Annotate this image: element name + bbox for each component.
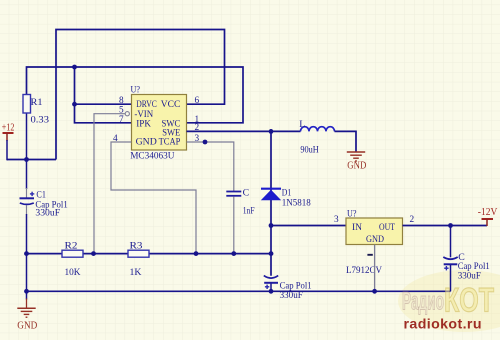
svg-text:7: 7 bbox=[119, 115, 124, 125]
svg-text:2: 2 bbox=[410, 215, 415, 225]
node 1nF junction bbox=[231, 251, 236, 256]
svg-text:10K: 10K bbox=[65, 267, 81, 278]
wire OUT to -12V bbox=[403, 225, 488, 227]
node B (75,103) bbox=[72, 102, 77, 107]
resistor R3 bbox=[128, 241, 149, 279]
svg-text:radiokot.ru: radiokot.ru bbox=[404, 317, 482, 333]
resistor R2 bbox=[62, 241, 83, 279]
svg-text:L7912CV: L7912CV bbox=[346, 265, 382, 276]
node C2 junction bbox=[269, 289, 274, 294]
svg-text:330uF: 330uF bbox=[35, 207, 60, 218]
wire VCC top loop bbox=[56, 30, 225, 160]
wire to ground left bbox=[26, 291, 28, 299]
svg-text:90uH: 90uH bbox=[300, 144, 318, 155]
capacitor C4 Cap Pol1 330uF right bbox=[443, 226, 489, 292]
svg-text:R3: R3 bbox=[130, 241, 143, 252]
svg-text:330uF: 330uF bbox=[458, 271, 482, 282]
svg-text:MC34063U: MC34063U bbox=[130, 150, 174, 161]
svg-text:IN: IN bbox=[352, 222, 362, 233]
svg-text:IPK: IPK bbox=[136, 118, 151, 129]
node output cap junction bbox=[448, 223, 453, 228]
node pin4 junction bbox=[194, 251, 199, 256]
wire SWE to inductor bbox=[187, 130, 301, 132]
svg-text:TCAP: TCAP bbox=[159, 137, 181, 148]
svg-text:R1: R1 bbox=[31, 97, 43, 108]
svg-text:R2: R2 bbox=[65, 241, 78, 252]
wire W2 ground rail bbox=[27, 290, 451, 292]
node +12 rail junction bbox=[24, 157, 29, 162]
ground left bbox=[17, 308, 38, 331]
diode D1 1N5818 bbox=[261, 188, 311, 209]
wire feedback top (to SWC) bbox=[27, 67, 244, 123]
watermark glow bbox=[398, 270, 500, 332]
wire -VIN pin5 to divider bbox=[94, 112, 129, 254]
node SWE branch bbox=[269, 129, 274, 134]
svg-text:6: 6 bbox=[195, 96, 200, 106]
wire inductor to ground bbox=[335, 131, 357, 151]
capacitor C3 1nF bbox=[226, 187, 255, 253]
svg-text:3: 3 bbox=[334, 215, 339, 225]
op-amp U2 L7912CV body bbox=[346, 208, 403, 275]
capacitor C2 Cap Pol1 330uF bottom bbox=[264, 276, 312, 301]
svg-text:GND: GND bbox=[366, 234, 384, 245]
wire regulator GND pin bbox=[374, 245, 376, 292]
op-amp U1 MC34063U body bbox=[130, 85, 186, 162]
svg-text:GND: GND bbox=[136, 137, 157, 148]
wire W1 divider rail bbox=[27, 253, 272, 255]
svg-text:1nF: 1nF bbox=[243, 205, 255, 216]
power -12V bbox=[478, 207, 498, 226]
pin 1 regulator bbox=[367, 254, 372, 256]
svg-text:GND: GND bbox=[17, 321, 38, 332]
svg-text:1N5818: 1N5818 bbox=[282, 198, 311, 209]
wire +12 rail bbox=[7, 159, 56, 161]
resistor R1 bbox=[23, 95, 49, 160]
svg-text:C: C bbox=[243, 187, 250, 198]
node A (75,67) bbox=[72, 65, 77, 70]
svg-text:OUT: OUT bbox=[379, 222, 395, 233]
node TCAP dot bbox=[203, 140, 208, 145]
svg-text:0.33: 0.33 bbox=[31, 114, 50, 125]
node W2 left bbox=[24, 289, 29, 294]
inductor L bbox=[299, 119, 334, 155]
node W1 left bbox=[24, 251, 29, 256]
svg-text:Радио: Радио bbox=[402, 288, 444, 316]
svg-text:U?: U? bbox=[131, 85, 141, 96]
wire IPK pin7 branch bbox=[75, 104, 132, 123]
node pin5 junction bbox=[91, 251, 96, 256]
svg-text:GND: GND bbox=[347, 160, 366, 171]
svg-text:L: L bbox=[299, 119, 305, 130]
svg-text:1K: 1K bbox=[130, 267, 142, 278]
wire GND pin4 loop bbox=[111, 142, 196, 254]
ground right bbox=[347, 152, 367, 171]
node W1 end bbox=[269, 251, 274, 256]
wire to regulator IN bbox=[271, 225, 346, 227]
node regulator gnd junction bbox=[372, 289, 377, 294]
svg-text:U?: U? bbox=[347, 208, 357, 219]
svg-text:-12V: -12V bbox=[478, 207, 498, 218]
power +12 bbox=[2, 122, 15, 160]
wire DRVC pin8 branch bbox=[75, 67, 132, 104]
wire D1 branch vertical bbox=[270, 131, 272, 275]
svg-text:+12: +12 bbox=[2, 122, 15, 133]
svg-text:VCC: VCC bbox=[161, 99, 181, 110]
wire TCAP pin3 bbox=[187, 142, 234, 191]
svg-text:КОТ: КОТ bbox=[444, 282, 494, 320]
capacitor C1 bbox=[20, 160, 68, 292]
node IN junction bbox=[269, 223, 274, 228]
